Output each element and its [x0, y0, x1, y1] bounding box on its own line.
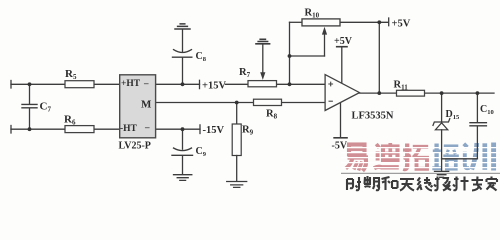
zener D15 bottom lead — [441, 130, 443, 159]
node: wiper tap junction — [288, 54, 292, 58]
watermark slogan jia — [487, 177, 498, 191]
resistor R9 bottom lead — [236, 156, 238, 182]
capacitor C9 plates — [174, 148, 192, 151]
svg-text:LV25-P: LV25-P — [119, 141, 151, 152]
input terminal tick bottom — [10, 126, 12, 134]
watermark white stripes — [341, 148, 500, 168]
capacitor C10 plates — [470, 123, 486, 126]
wire: R10 wiper tap horizontal — [290, 55, 325, 57]
watermark slogan tian — [400, 179, 414, 191]
svg-text:LF3535N: LF3535N — [352, 111, 394, 122]
resistor R9 body — [232, 124, 241, 156]
ground below R9 — [227, 182, 247, 188]
svg-text:+5V: +5V — [334, 36, 353, 47]
capacitor C9 top lead — [182, 129, 184, 149]
capacitor C10 top lead — [476, 93, 478, 122]
resistor R6 — [65, 126, 94, 133]
zener D15 top lead — [441, 93, 443, 122]
watermark slogan zhuan — [472, 177, 484, 191]
node: feedback junction on +input wire — [288, 82, 292, 86]
svg-text:–: – — [144, 122, 150, 132]
svg-text:-HT: -HT — [120, 124, 138, 134]
ground above C8 — [175, 24, 190, 29]
watermark slogan she — [347, 177, 361, 190]
wire: R6 to LV25-P — [94, 128, 120, 130]
resistor R8 — [254, 99, 282, 105]
op-amp positive supply lead — [341, 47, 343, 83]
watermark glyph yi (pink) — [346, 145, 368, 171]
potentiometer R7 arrowhead — [260, 72, 265, 80]
wire: M output to R8 — [156, 102, 254, 104]
svg-text:-5V: -5V — [332, 141, 348, 152]
node: C7 bottom junction — [28, 127, 32, 131]
terminal tick +15V — [199, 80, 201, 88]
capacitor C8 upper lead — [182, 29, 184, 52]
potentiometer R10 arrowhead — [322, 27, 327, 35]
watermark slogan xian — [417, 177, 433, 191]
wire: +15V label to R7 — [226, 83, 249, 85]
input terminal tick top — [10, 81, 12, 89]
potentiometer R7 body — [248, 81, 277, 87]
wire: op-amp output to R11 — [360, 92, 397, 94]
wire: output node vertical to feedback rail — [378, 22, 380, 93]
capacitor C7 top lead — [29, 84, 31, 104]
watermark glyph pei (blue) — [432, 144, 459, 170]
capacitor C7 plates — [22, 104, 37, 107]
wire: +15V rail from box — [156, 83, 200, 85]
watermark band (drawn first, schematic goes on top) — [341, 143, 500, 191]
node: C9 junction on -15V rail — [181, 127, 185, 131]
ground lead below D15 — [441, 159, 443, 171]
wire: bottom connector D15 to C10 — [442, 158, 478, 160]
watermark slogan pin — [364, 176, 380, 190]
potentiometer R10 body — [302, 19, 340, 26]
svg-text:–: – — [143, 78, 149, 88]
watermark slogan she2 — [434, 177, 451, 191]
wire: R7 to op-amp non-inverting input — [277, 83, 326, 85]
watermark slogan ji — [453, 177, 469, 191]
watermark glyph di (pink) — [374, 143, 399, 168]
wire: R5 to LV25-P — [94, 83, 120, 85]
capacitor C8 plates — [173, 56, 192, 58]
zener D15 anode triangle — [435, 123, 447, 130]
zener D15 cathode bar with hooks — [433, 119, 450, 126]
terminal tick +5V top — [388, 18, 390, 26]
op-amp plus input mark — [328, 82, 333, 87]
capacitor C10 bottom lead — [476, 126, 478, 159]
wire: bottom input to R6 — [11, 128, 65, 130]
ground below C9 — [174, 175, 192, 181]
resistor R5 — [65, 81, 94, 88]
node: D15 junction — [440, 91, 444, 95]
svg-text:-15V: -15V — [203, 125, 225, 136]
watermark glyph tuo (pink) — [403, 144, 428, 170]
svg-text:+HT: +HT — [121, 79, 141, 89]
wire: top input to R5 — [11, 83, 65, 85]
watermark slogan he — [382, 177, 398, 190]
op-amp U2 triangle — [325, 75, 359, 111]
capacitor C8 lower lead — [182, 58, 184, 85]
ground above R7 — [256, 39, 270, 44]
watermark gray rule — [341, 172, 500, 174]
ground below D15/C10 — [435, 171, 449, 177]
wire: feedback corner to R10 left — [290, 21, 303, 23]
op-amp negative supply lead — [340, 103, 342, 137]
node: R9 junction on M wire — [235, 101, 239, 105]
feedback vertical wire — [289, 22, 291, 84]
op-amp positive supply rail bar — [337, 46, 347, 48]
node: C7 top junction — [28, 82, 32, 86]
wire: R8 to op-amp inverting input — [282, 102, 326, 104]
op-amp negative supply rail bar — [334, 137, 347, 139]
node: output junction — [377, 91, 381, 95]
resistor R9 top lead — [236, 103, 238, 125]
R7 wiper shaft — [262, 44, 264, 73]
capacitor C7 bottom lead — [29, 108, 31, 129]
wire: R11 to output network — [425, 92, 495, 94]
node: C8 junction on +15V rail — [181, 82, 185, 86]
node: C10 junction — [476, 91, 480, 95]
LV25-P transducer box U1 — [120, 75, 156, 138]
watermark glyph xun (blue) — [464, 143, 494, 171]
node: +5V top junction — [377, 20, 381, 24]
svg-text:M: M — [141, 99, 152, 111]
svg-text:+5V: +5V — [392, 19, 411, 30]
capacitor C9 bottom lead — [182, 156, 184, 175]
wire: R10 right to +5V — [340, 21, 388, 23]
resistor R11 — [397, 90, 425, 96]
R10 wiper shaft — [324, 33, 326, 56]
svg-text:+15V: +15V — [202, 81, 226, 92]
op-amp minus input mark — [329, 100, 333, 102]
wire: -15V rail from box — [156, 128, 200, 130]
terminal tick -15V — [199, 125, 201, 134]
